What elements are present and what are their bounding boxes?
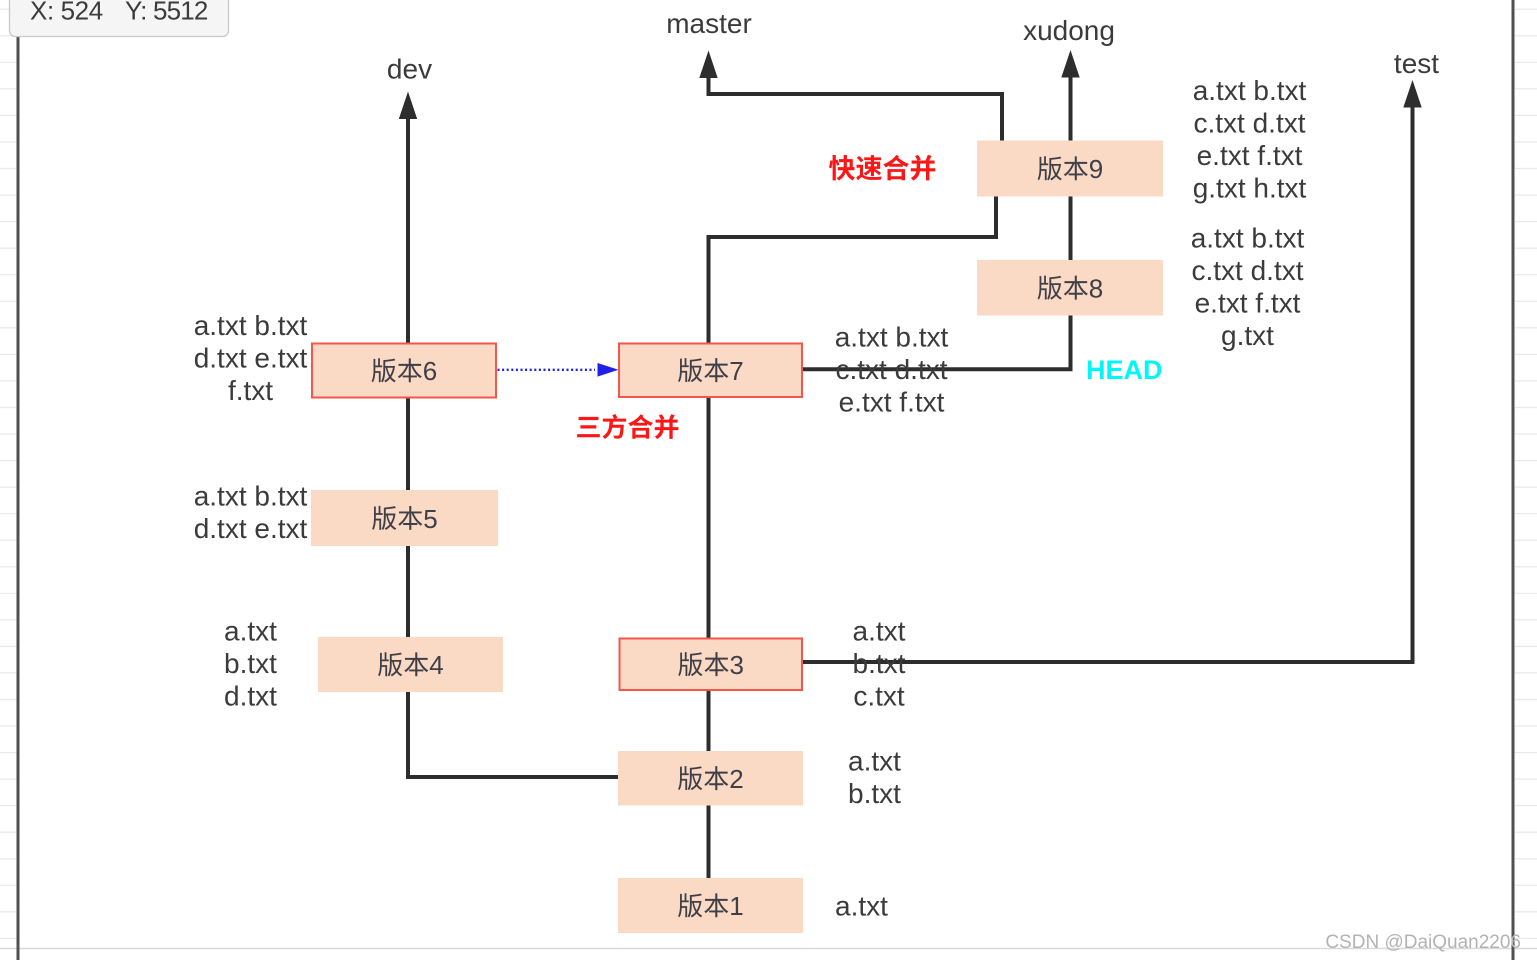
commit box 版本8 [977,260,1163,316]
svg-text:a.txtb.txt: a.txtb.txt [848,746,901,810]
svg-text:test: test [1394,48,1439,79]
wire: dev branch line down to 版本2 [408,116,618,777]
svg-text:2: 2 [729,764,743,794]
commit box 版本2 [618,751,803,806]
svg-text:1: 1 [729,891,743,921]
right sheet border vertical line [1512,0,1515,960]
commit box 版本6 [312,344,496,398]
svg-text:a.txt b.txtc.txt d.txte.txt f.: a.txt b.txtc.txt d.txte.txt f.txt [835,322,949,418]
commit box 版本5 [311,490,498,546]
wire: 版本9 bottom to main column down through 版本7/3/2 to 版本1 [709,196,997,878]
svg-text:3: 3 [730,650,744,680]
svg-text:a.txt b.txtc.txt d.txte.txt f.: a.txt b.txtc.txt d.txte.txt f.txtg.txt h… [1193,75,1307,204]
svg-text:Y: 5512: Y: 5512 [125,0,208,26]
arrowhead test [1403,80,1421,108]
svg-text:CSDN @DaiQuan2206: CSDN @DaiQuan2206 [1325,932,1521,953]
arrowhead master [699,51,717,79]
svg-text:a.txt: a.txt [835,891,888,922]
wire: test branch line down, corner left to 版本3 right [803,104,1413,662]
svg-text:a.txtb.txtd.txt: a.txtb.txtd.txt [224,616,277,712]
svg-text:4: 4 [429,650,443,680]
svg-text:5: 5 [423,504,437,534]
wire: master branch line to 版本9 top [709,75,1003,141]
label 三方合并 (three-way merge) [577,417,600,437]
arrowhead xudong [1061,50,1079,78]
svg-text:6: 6 [423,356,437,386]
commit box 版本7 [619,344,802,398]
svg-text:9: 9 [1089,154,1103,184]
svg-text:a.txt b.txtc.txt d.txte.txt f.: a.txt b.txtc.txt d.txte.txt f.txtg.txt [1191,223,1305,352]
coordinate tooltip X:524 Y:5512 [10,0,229,37]
label 快速合并 (fast-forward merge) [829,155,855,181]
arrowhead dev [399,92,417,120]
svg-text:7: 7 [729,356,743,386]
bottom sheet row line [0,948,1537,950]
left sheet border vertical line [17,37,20,960]
wire: xudong branch line down, HEAD corner to 版本7 right [803,75,1071,369]
svg-text:dev: dev [387,54,432,85]
commit box 版本1 [618,878,803,933]
commit box 版本4 [318,637,503,692]
svg-text:a.txt b.txtd.txt e.txt: a.txt b.txtd.txt e.txt [194,481,308,545]
svg-text:a.txt b.txtd.txt e.txtf.txt: a.txt b.txtd.txt e.txtf.txt [194,310,308,406]
svg-text:xudong: xudong [1023,15,1115,46]
svg-text:HEAD: HEAD [1086,355,1163,385]
svg-text:X: 524: X: 524 [30,0,103,26]
blue dotted arrow 版本6 to 版本7 [498,369,596,371]
svg-text:master: master [666,8,752,39]
svg-text:8: 8 [1089,274,1103,304]
svg-text:a.txtb.txtc.txt: a.txtb.txtc.txt [853,616,906,712]
commit box 版本3 [620,639,803,691]
commit box 版本9 [977,141,1163,197]
